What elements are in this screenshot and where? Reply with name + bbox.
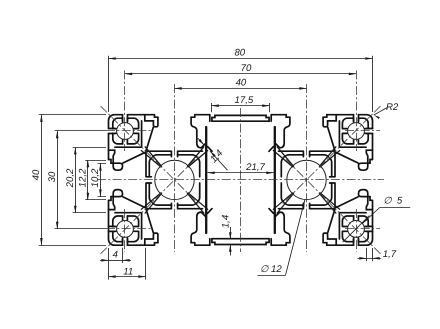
dimension 4 [100, 249, 131, 261]
svg-text:R2: R2 [386, 102, 399, 113]
extension lines [39, 56, 373, 280]
svg-text:17,5: 17,5 [235, 95, 254, 106]
diameter Ø12 [258, 200, 305, 276]
dimension 21,7 [208, 162, 274, 174]
dimension 10,2 [90, 163, 102, 196]
dimension 30 [47, 131, 59, 229]
svg-text:10,2: 10,2 [90, 168, 101, 187]
svg-text:4: 4 [113, 249, 118, 260]
central box [206, 115, 275, 246]
radius R2 [374, 102, 399, 119]
svg-text:70: 70 [241, 63, 252, 74]
svg-text:20,2: 20,2 [65, 168, 76, 188]
svg-text:40: 40 [31, 169, 42, 180]
svg-text:1,7: 1,7 [383, 249, 397, 260]
svg-text:11: 11 [123, 267, 133, 278]
dimension 70 [125, 63, 356, 75]
dimension 20,2 [65, 147, 77, 213]
svg-text:30: 30 [47, 171, 58, 182]
svg-text:21,7: 21,7 [245, 162, 265, 173]
dimension 1,4 bottom [221, 215, 232, 256]
dimension 11 [109, 267, 146, 278]
corner holes Ø5 [117, 123, 365, 238]
dimension 40 left [31, 115, 43, 246]
dimension 1,7 [358, 249, 397, 260]
svg-text:80: 80 [234, 48, 245, 59]
svg-text:∅ 12: ∅ 12 [260, 264, 282, 275]
svg-text:40: 40 [236, 78, 247, 89]
corner screw bosses [112, 118, 369, 242]
dimension 17,5 [212, 95, 270, 107]
svg-text:1,4: 1,4 [221, 215, 232, 228]
dimension 80 [109, 48, 373, 60]
profile outer boundary [109, 115, 373, 246]
dimension 12,2 [78, 160, 90, 200]
dimension 1,4 top [198, 138, 228, 170]
T-slot lips [109, 115, 373, 246]
slot cavity floors [123, 128, 358, 233]
bore cavities with X-slits [141, 147, 339, 213]
dimension 40 top [175, 78, 307, 90]
diameter Ø5 [343, 195, 411, 242]
screw channel slits [109, 115, 373, 246]
center lines [97, 70, 384, 254]
svg-text:12,2: 12,2 [78, 168, 89, 187]
svg-text:∅ 5: ∅ 5 [383, 195, 403, 206]
bores Ø12 [155, 160, 326, 199]
